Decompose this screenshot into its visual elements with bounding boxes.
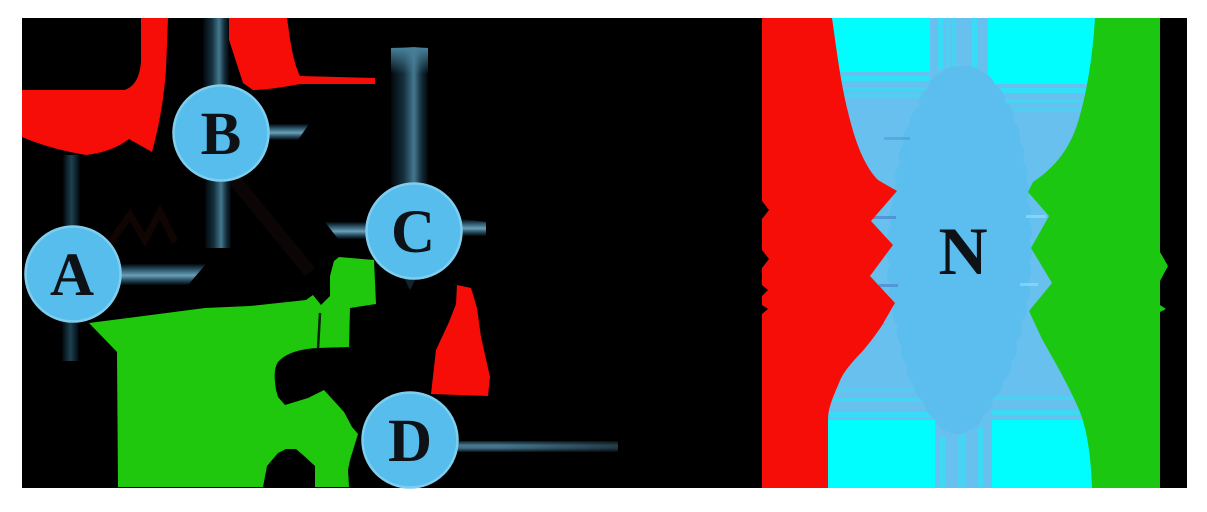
faint diagonal from B <box>228 172 310 272</box>
red band (right structure) <box>762 18 897 488</box>
cyan streaks bottom left <box>826 412 935 417</box>
vertical cyan stripes below blob <box>940 437 945 487</box>
circle B <box>174 86 269 181</box>
leader bar: C up <box>391 47 428 185</box>
svg-text:D: D <box>388 408 432 475</box>
leader bar: A down <box>62 320 79 361</box>
leader bar: A up <box>63 155 80 229</box>
extra cyan streaks <box>826 94 926 98</box>
leader bar: C right stub <box>461 219 486 236</box>
faint wedge under C <box>403 276 417 290</box>
circle D <box>363 393 458 488</box>
circle A <box>26 227 121 322</box>
svg-text:A: A <box>50 242 94 309</box>
leader bar: C left <box>325 222 368 239</box>
leader bar: B up <box>203 18 229 86</box>
faint dark dashes in blue field <box>858 137 910 325</box>
green main blob: body + G2 + neck + hill <box>89 257 376 487</box>
cyan streaks bottom right <box>992 410 1100 415</box>
leader bar: B down <box>205 178 231 248</box>
dark crack in green body <box>318 313 320 349</box>
leader bar: D right <box>456 441 618 452</box>
vertical cyan stripes above blob <box>938 18 943 70</box>
svg-text:C: C <box>391 199 435 266</box>
red band R2 (slanted, with thin tail) <box>222 18 375 90</box>
leader bar: B right stub <box>268 124 309 140</box>
cyan streaks top right <box>988 88 1100 93</box>
leader bar: C up cap <box>391 48 428 74</box>
svg-text:N: N <box>938 213 987 289</box>
red ribbon R1 (top left bent band) <box>22 18 168 155</box>
cyan streaks top left <box>826 76 930 81</box>
faint dark marks (tangle) <box>110 212 175 243</box>
red blob R3 (near D) <box>431 285 490 396</box>
nucleus blob N <box>887 66 1032 434</box>
green band (right structure) <box>1028 18 1168 488</box>
svg-text:B: B <box>201 101 242 168</box>
cyan background field <box>815 18 1105 488</box>
leader bar: A right <box>120 264 206 285</box>
light blue halo region <box>826 18 1090 488</box>
circle C <box>367 184 462 279</box>
